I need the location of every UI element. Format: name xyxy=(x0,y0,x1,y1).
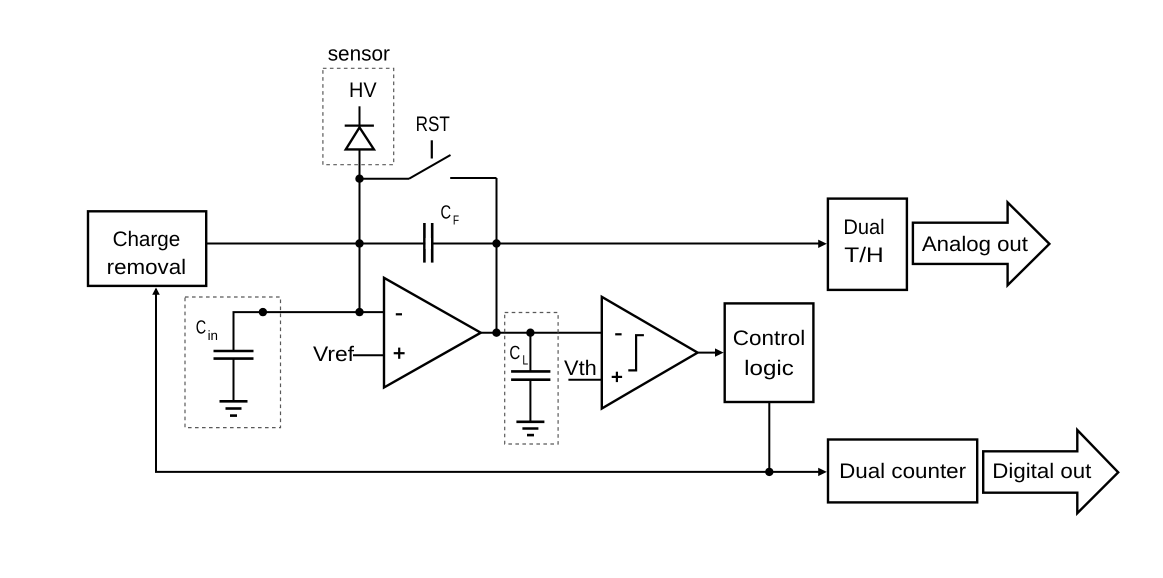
node dot bottom bus xyxy=(765,468,773,476)
diode D1 xyxy=(345,106,374,149)
wire Control logic down xyxy=(768,402,770,472)
capacitor CL xyxy=(511,333,550,422)
arrowhead into Control logic xyxy=(715,348,724,356)
block arrow Digital out xyxy=(983,430,1118,513)
svg-text:removal: removal xyxy=(107,256,186,279)
arrowhead into Dual T/H xyxy=(818,240,827,248)
arrowhead into Dual counter xyxy=(818,468,827,476)
wire vertical feedback column xyxy=(496,178,498,333)
wire comparator output to Control logic xyxy=(698,352,718,354)
node dot CL tap xyxy=(526,329,534,337)
svg-text:sensor: sensor xyxy=(328,42,390,65)
svg-text:Vref: Vref xyxy=(313,343,354,366)
wire op-amp output to comparator xyxy=(481,332,602,334)
svg-text:C: C xyxy=(441,203,452,224)
svg-text:Analog out: Analog out xyxy=(922,233,1028,256)
box U_TH Dual T/H xyxy=(828,199,907,290)
svg-text:Dual: Dual xyxy=(843,216,884,239)
svg-text:L: L xyxy=(522,353,528,368)
node dot top (diode/switch junction) xyxy=(355,175,363,183)
block arrow Analog out xyxy=(913,202,1050,285)
svg-text:Charge: Charge xyxy=(113,228,181,251)
box U_CL Control logic xyxy=(725,303,814,402)
svg-text:Digital out: Digital out xyxy=(992,460,1091,483)
svg-text:C: C xyxy=(196,318,206,339)
wire vertical input node column xyxy=(359,149,361,312)
svg-text:T/H: T/H xyxy=(844,244,883,267)
box U_DC Dual counter xyxy=(828,440,977,503)
wire Vref to plus input xyxy=(353,354,384,356)
node dot Cin tap xyxy=(259,308,267,316)
node dot minus input xyxy=(355,308,363,316)
svg-text:Dual counter: Dual counter xyxy=(839,460,966,483)
arrowhead into Charge removal xyxy=(152,288,160,295)
wire Vth to plus input xyxy=(568,379,601,381)
svg-text:logic: logic xyxy=(744,357,794,380)
wire main horizontal to Dual T/H xyxy=(206,243,820,245)
dashed box sensor xyxy=(323,68,394,164)
svg-text:C: C xyxy=(509,343,520,364)
svg-text:HV: HV xyxy=(349,79,377,102)
box U_CR Charge removal xyxy=(88,211,206,286)
node dot CF right xyxy=(492,239,500,247)
capacitor CF xyxy=(424,223,432,263)
wire minus input (Cin elbow to op-amp) xyxy=(234,312,385,351)
switch RST xyxy=(360,140,497,178)
svg-text:Control: Control xyxy=(733,327,805,350)
svg-text:RST: RST xyxy=(416,113,450,136)
op-amp U1 xyxy=(384,278,481,388)
ground Cin xyxy=(220,401,248,415)
node dot op-amp output xyxy=(492,329,500,337)
capacitor Cin xyxy=(214,351,254,401)
wire feedback bottom bus xyxy=(156,289,820,472)
comparator U2 xyxy=(602,297,698,409)
ground CL xyxy=(516,422,544,435)
svg-text:in: in xyxy=(208,328,218,343)
svg-text:F: F xyxy=(453,213,459,228)
dashed box CL xyxy=(505,313,558,445)
dashed box Cin xyxy=(185,297,281,428)
node dot main wire xyxy=(355,239,363,247)
svg-text:Vth: Vth xyxy=(564,357,597,380)
